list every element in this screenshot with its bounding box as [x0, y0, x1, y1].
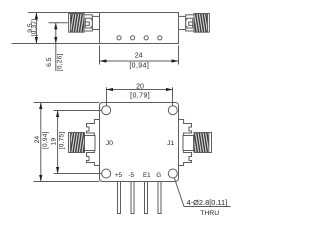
J1 coupling nut (threads)	[194, 133, 212, 153]
pin 1 (+5)	[118, 182, 121, 214]
pin feedthrough hole 3	[144, 36, 148, 40]
svg-text:[0,94]: [0,94]	[42, 131, 49, 149]
pin 3 (E1)	[145, 182, 148, 214]
svg-text:19: 19	[51, 138, 58, 146]
svg-text:[0,79]: [0,79]	[130, 92, 150, 99]
J0 interface plate	[84, 15, 92, 31]
dim 6.5 dimension line	[55, 23, 57, 71]
dim 20 dimension line	[107, 89, 173, 91]
dim 19 dimension line	[57, 111, 59, 174]
dim 19 extension lines	[54, 110, 102, 112]
J0 flange neck	[92, 16, 99, 29]
mounting hole bottom-left	[102, 169, 111, 178]
svg-text:[0,37]: [0,37]	[31, 19, 38, 37]
J0 coupling nut (threads)	[69, 133, 85, 153]
J1 coupling nut (threads)	[194, 14, 209, 33]
J1 interface bore detail	[187, 18, 193, 28]
J0 flange plate	[94, 120, 99, 166]
svg-text:[0,26]: [0,26]	[57, 53, 64, 71]
J0 bushing	[85, 136, 96, 151]
svg-text:+5: +5	[115, 172, 123, 179]
body outline top view	[100, 13, 179, 44]
mounting hole bottom-right	[168, 169, 177, 178]
svg-text:J1: J1	[167, 140, 174, 147]
dim 24 (top view) extension lines	[99, 46, 101, 65]
svg-text:24: 24	[34, 136, 41, 144]
svg-text:[0,75]: [0,75]	[59, 132, 66, 150]
svg-text:[0,94]: [0,94]	[129, 62, 149, 69]
connector J0 top view	[69, 14, 100, 33]
J1 bushing	[183, 136, 194, 151]
connector J0 bottom view	[69, 120, 100, 166]
svg-text:G: G	[156, 172, 161, 179]
pin 4 (G)	[158, 182, 161, 214]
connector J1 bottom view (mirror)	[179, 120, 212, 166]
J1 mounting tab lower	[183, 153, 192, 163]
dim 20 extension lines	[106, 87, 108, 105]
J0 interface bore detail	[85, 18, 91, 28]
dim 9.5 extension line bottom	[12, 43, 100, 45]
center line of connector axis	[49, 22, 68, 24]
svg-text:24: 24	[135, 53, 143, 60]
dim 24 (bottom view) dimension line	[40, 103, 42, 182]
svg-text:E1: E1	[143, 172, 151, 179]
J0 mounting tab lower	[87, 153, 96, 163]
J1 flange plate	[179, 120, 184, 166]
svg-text:-5: -5	[129, 172, 135, 179]
svg-text:20: 20	[136, 83, 144, 90]
dim 9.5 dimension line	[35, 13, 37, 44]
pin 2 (-5)	[131, 182, 134, 214]
body outline bottom view	[100, 103, 179, 182]
J0 coupling nut (threads)	[69, 14, 84, 33]
hole note leader line	[174, 178, 230, 207]
mounting hole top-left	[102, 106, 111, 115]
svg-text:J0: J0	[106, 140, 113, 147]
J1 mounting tab upper	[183, 124, 192, 134]
mounting hole top-right	[168, 106, 177, 115]
dim 24 (bottom view) extension lines	[34, 102, 100, 104]
pin feedthrough hole 1	[117, 36, 121, 40]
dim 9.5 extension line top	[28, 12, 100, 14]
J0 mounting tab upper	[87, 124, 96, 134]
svg-text:THRU: THRU	[200, 210, 219, 217]
J1 flange neck	[179, 16, 186, 29]
dim 24 (top view) dimension line	[100, 60, 179, 62]
svg-text:6.5: 6.5	[46, 57, 53, 67]
pin feedthrough hole 2	[131, 36, 135, 40]
connector J1 top view (mirror)	[179, 14, 210, 33]
J1 interface plate	[186, 15, 194, 31]
pin feedthrough hole 4	[158, 36, 162, 40]
svg-text:4-Ø2.8[0.11]: 4-Ø2.8[0.11]	[187, 198, 228, 207]
